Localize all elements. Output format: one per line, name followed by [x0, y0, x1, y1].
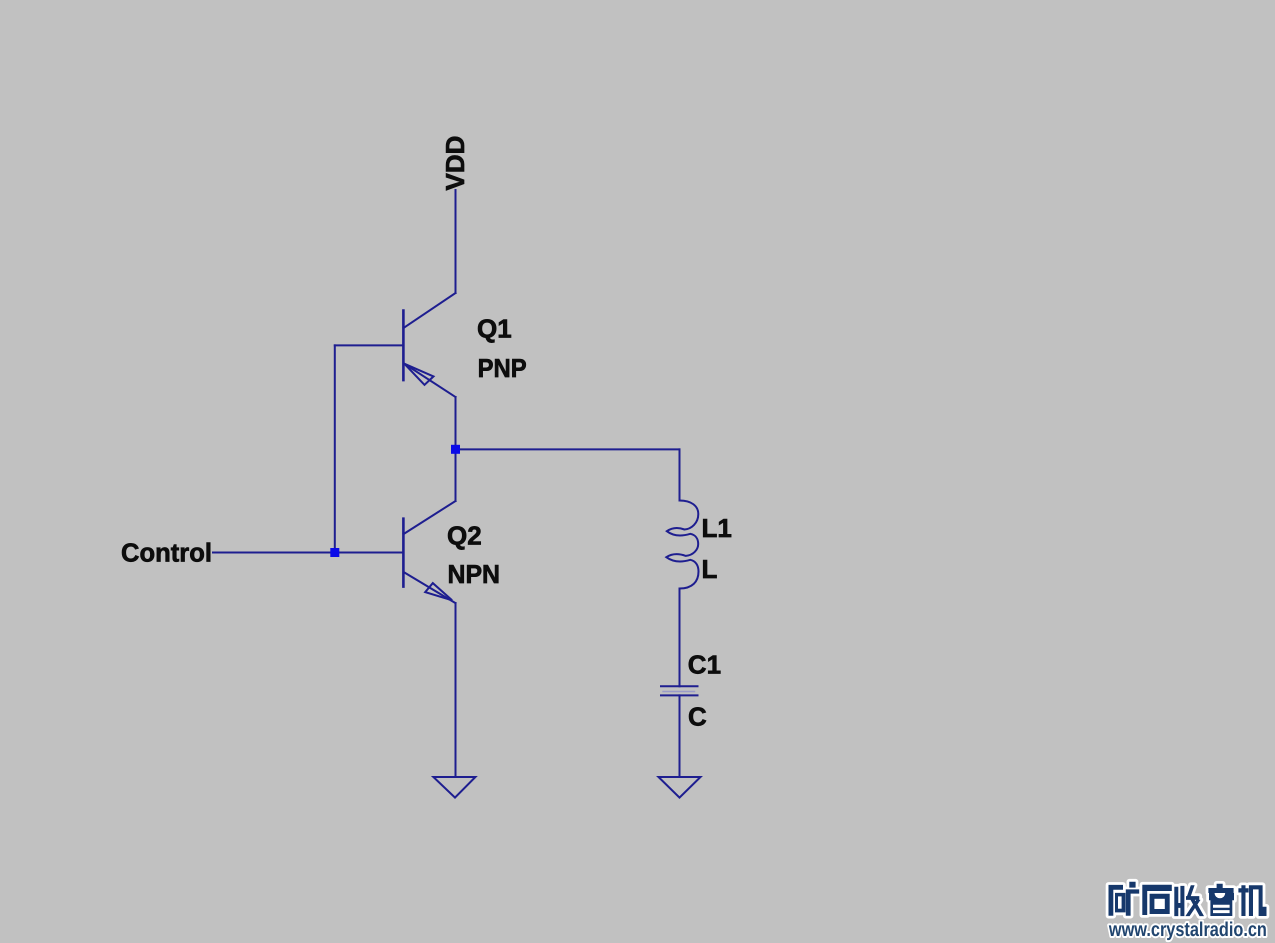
- svg-text:L1: L1: [702, 513, 732, 543]
- svg-text:www.crystalradio.cn: www.crystalradio.cn: [1108, 919, 1267, 941]
- svg-text:Control: Control: [121, 538, 212, 568]
- svg-text:C: C: [688, 701, 707, 731]
- svg-text:Q2: Q2: [447, 521, 482, 551]
- svg-text:PNP: PNP: [478, 353, 527, 383]
- svg-text:Q1: Q1: [477, 313, 512, 343]
- svg-text:C1: C1: [688, 650, 721, 680]
- svg-text:L: L: [702, 554, 718, 584]
- svg-text:NPN: NPN: [448, 559, 501, 589]
- svg-text:VDD: VDD: [440, 136, 470, 191]
